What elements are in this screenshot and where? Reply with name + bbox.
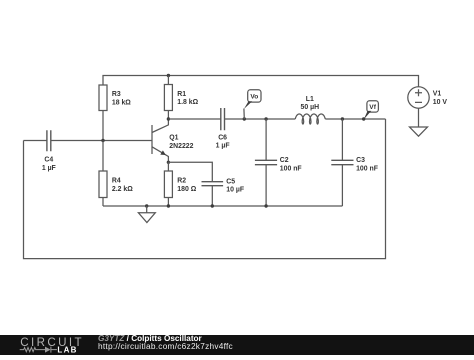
node C2 top junction dot xyxy=(264,117,267,120)
svg-text:1.8 kΩ: 1.8 kΩ xyxy=(177,99,198,106)
wire V1 to ground xyxy=(418,108,420,127)
svg-text:18 kΩ: 18 kΩ xyxy=(112,100,131,107)
wire base segment C4 to Q1 base xyxy=(51,140,152,142)
svg-text:R4: R4 xyxy=(112,178,121,185)
svg-text:2N2222: 2N2222 xyxy=(169,143,193,150)
node base junction dot xyxy=(101,139,104,142)
svg-text:L1: L1 xyxy=(306,96,314,103)
wire C4 left lead xyxy=(24,140,47,142)
capacitor C2 xyxy=(255,119,302,206)
resistor R1 xyxy=(164,85,198,111)
svg-text:2.2 kΩ: 2.2 kΩ xyxy=(112,186,133,193)
svg-text:C6: C6 xyxy=(218,134,227,141)
resistor R4 xyxy=(99,141,133,207)
node Vo tap junction dot xyxy=(243,117,246,120)
wire R1 bottom to collector node xyxy=(167,111,169,120)
svg-text:R1: R1 xyxy=(177,91,186,98)
svg-text:Vf: Vf xyxy=(369,104,376,111)
inductor L1 xyxy=(295,96,325,124)
svg-text:C4: C4 xyxy=(44,157,53,164)
svg-text:100 nF: 100 nF xyxy=(356,165,378,172)
svg-text:C5: C5 xyxy=(226,178,235,185)
node C5 bottom junction dot xyxy=(211,204,214,207)
wire R3 bottom to base node xyxy=(102,111,104,141)
transistor Q1 xyxy=(152,119,194,162)
wire emitter node to C5 xyxy=(168,162,212,182)
capacitor C5 xyxy=(202,178,245,206)
svg-text:Vo: Vo xyxy=(250,94,258,101)
node Vo voltage flag xyxy=(244,90,261,119)
capacitor C6 xyxy=(216,108,230,150)
svg-text:R2: R2 xyxy=(177,178,186,185)
svg-text:LAB: LAB xyxy=(57,346,77,355)
node Vf voltage flag xyxy=(364,101,379,120)
CircuitLab logo xyxy=(0,335,95,355)
resistor R3 xyxy=(99,85,131,111)
node C2 bottom junction dot xyxy=(264,204,267,207)
wire bottom emitter ground rail xyxy=(103,205,342,207)
node R2 bottom junction dot xyxy=(167,204,170,207)
node ground junction dot xyxy=(145,204,148,207)
footer url text xyxy=(98,342,233,350)
svg-text:R3: R3 xyxy=(112,91,121,98)
svg-text:1 µF: 1 µF xyxy=(216,143,230,150)
svg-text:100 nF: 100 nF xyxy=(280,165,302,172)
ground GND2 xyxy=(410,127,428,136)
node Vf tap junction dot xyxy=(362,117,365,120)
footer title text xyxy=(98,335,202,343)
svg-text:V1: V1 xyxy=(433,91,442,98)
svg-text:50 µH: 50 µH xyxy=(301,104,320,111)
node C3 top junction dot xyxy=(341,117,344,120)
ground GND1 xyxy=(138,206,155,223)
wire top supply rail xyxy=(103,76,419,87)
capacitor C3 xyxy=(331,119,378,206)
svg-text:1 µF: 1 µF xyxy=(42,165,56,172)
wire collector node to C6 xyxy=(168,118,220,120)
wire R1 top lead xyxy=(167,76,169,85)
voltage source V1 xyxy=(408,87,448,108)
svg-text:C2: C2 xyxy=(280,157,289,164)
node emitter junction dot xyxy=(167,161,170,164)
wire feedback loop left/bottom/right xyxy=(24,119,386,259)
resistor R2 xyxy=(164,162,196,206)
node collector-rail junction dot R1 top xyxy=(167,74,170,77)
wire C6 to L1 xyxy=(225,118,296,120)
svg-text:10 V: 10 V xyxy=(433,99,448,106)
svg-text:C3: C3 xyxy=(356,157,365,164)
svg-text:Q1: Q1 xyxy=(169,134,178,141)
svg-text:180 Ω: 180 Ω xyxy=(177,186,196,193)
capacitor C4 xyxy=(42,130,56,172)
wire L1 to corner xyxy=(325,118,385,120)
node collector junction dot xyxy=(167,117,170,120)
footer bar xyxy=(0,335,474,355)
svg-text:10 µF: 10 µF xyxy=(226,187,244,194)
